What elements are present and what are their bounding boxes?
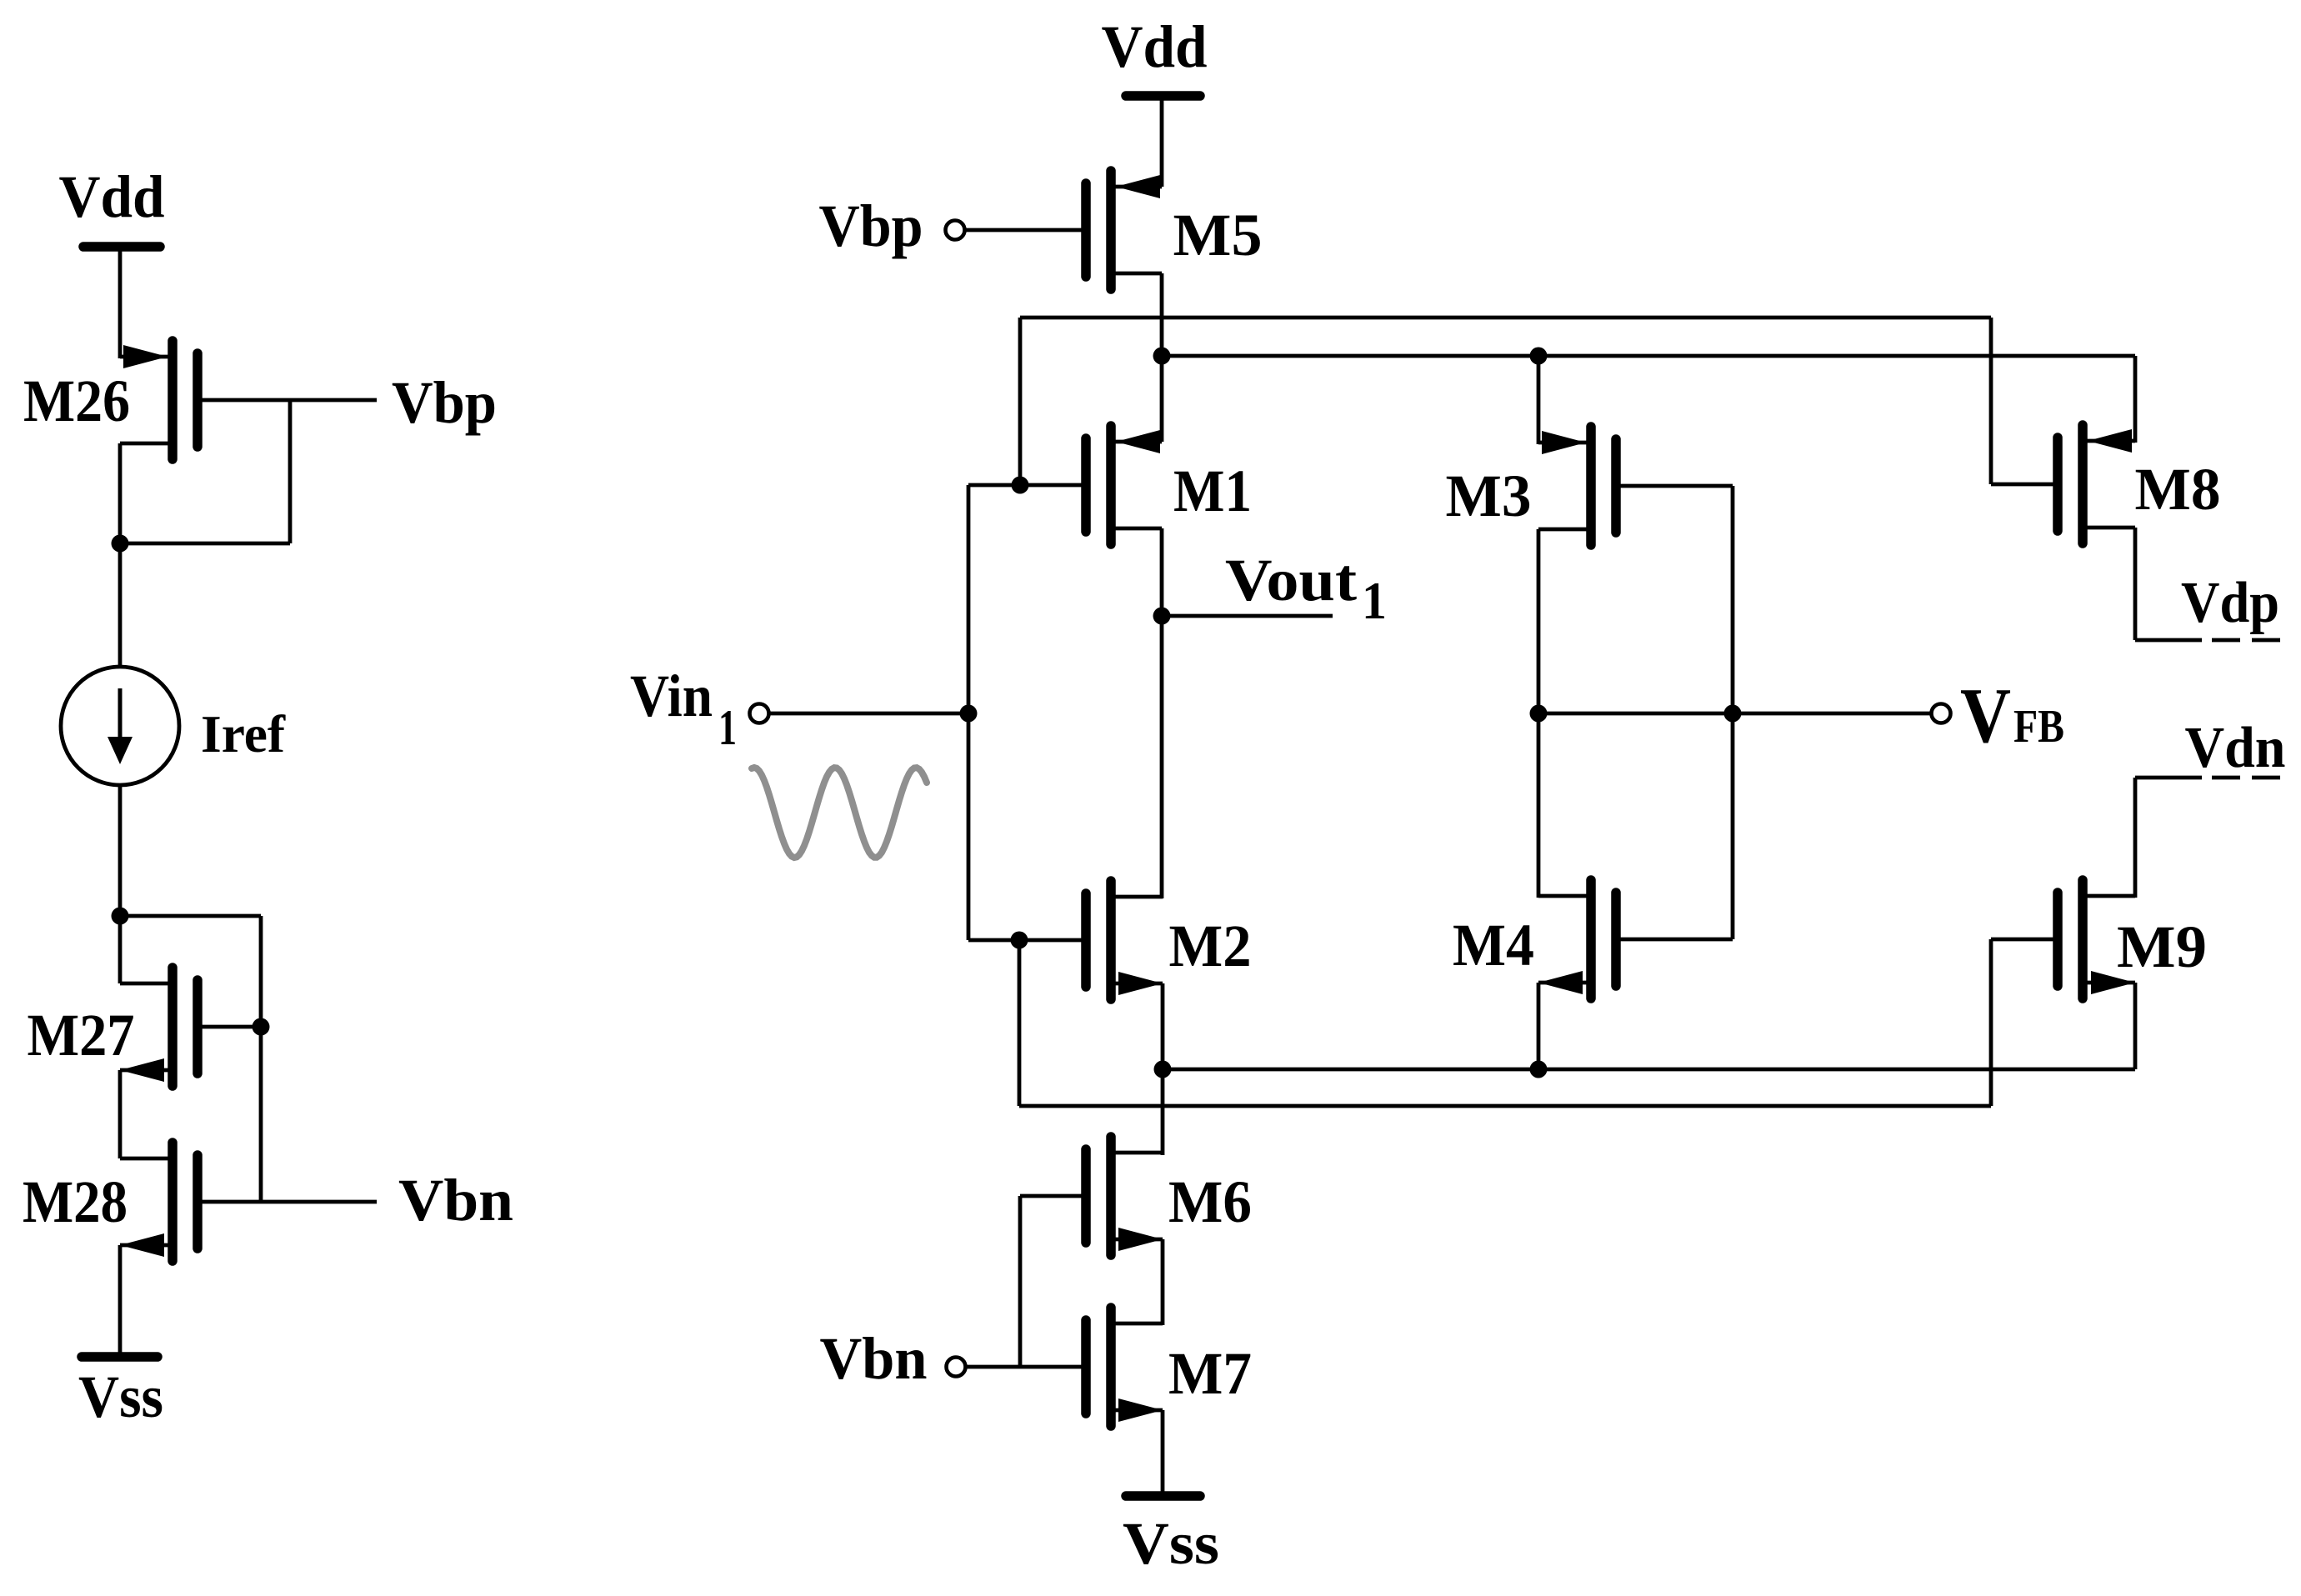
transistor M28 (NMOS) [120, 1143, 377, 1261]
label M7 [1168, 1340, 1252, 1407]
wire rail M2/M9 gate bus [1019, 1104, 1991, 1108]
terminal Vin1 [750, 704, 769, 723]
svg-text:M8: M8 [2135, 456, 2221, 523]
net label Vbn (left) [398, 1167, 513, 1233]
svg-text:M4: M4 [1453, 912, 1534, 978]
transistor M27 (NMOS) [120, 968, 261, 1086]
ground symbol Vss (left) [78, 1357, 163, 1430]
wire input column [967, 485, 971, 940]
wire Vdn to M9 drain [2133, 778, 2138, 898]
svg-text:Vbp: Vbp [819, 193, 923, 259]
wire M1 drain to M2 drain [1160, 528, 1164, 898]
wire Iref to M27 drain [118, 785, 123, 983]
svg-text:Vdd: Vdd [59, 163, 165, 230]
terminal Vdn [2135, 776, 2280, 780]
wire M26 gate feedback [120, 400, 290, 543]
wire M6 gate branch [1018, 1196, 1023, 1367]
svg-text:M2: M2 [1169, 913, 1252, 979]
node M26 drain-gate junction [112, 535, 129, 553]
svg-text:Vdp: Vdp [2181, 571, 2279, 635]
svg-text:M26: M26 [23, 368, 130, 434]
node M1 gate junction [1012, 477, 1029, 494]
svg-text:Vss: Vss [1123, 1510, 1219, 1577]
transistor M6 (NMOS) [1020, 1137, 1163, 1255]
node VFB on gate column [1724, 705, 1742, 723]
net label VFB [1960, 673, 2064, 759]
node VFB on drain column [1530, 705, 1548, 723]
label M6 [1168, 1168, 1252, 1235]
transistor M26 (PMOS) [120, 341, 377, 459]
wire Vdd to M5 source [1160, 96, 1164, 187]
svg-text:1: 1 [718, 700, 737, 755]
net label Vdp [2181, 571, 2279, 635]
terminal Vbn (M7 gate) [947, 1358, 966, 1377]
svg-text:M3: M3 [1446, 463, 1532, 529]
wire M2 source to M6 drain [1161, 983, 1165, 1155]
label M2 [1169, 913, 1252, 979]
transistor M2 (NMOS) [968, 881, 1163, 999]
node bias junction [112, 908, 129, 925]
net label Vdn [2185, 716, 2286, 780]
wire rail M5 drain to M3/M8 source bus [1162, 354, 2135, 358]
transistor M7 (NMOS) [966, 1308, 1163, 1426]
wire M28 source to Vss [118, 1245, 123, 1357]
sine wave source symbol [752, 768, 927, 858]
svg-text:M28: M28 [23, 1168, 128, 1235]
wire Vout1 lead [1162, 614, 1333, 618]
net label Vbn (right) [820, 1325, 928, 1392]
transistor M8 (PMOS) [1991, 425, 2135, 543]
wire rail1 down to M8 gate [1989, 318, 1993, 484]
net label Vin1 [630, 663, 737, 755]
wire M9 source down to rail [2133, 983, 2138, 1069]
node M27 gate junction [253, 1018, 270, 1036]
svg-text:Vbp: Vbp [392, 369, 497, 436]
node M3 source on bus [1530, 348, 1548, 365]
svg-text:Vss: Vss [78, 1363, 163, 1430]
wire M2 gate branch down [1018, 940, 1022, 1106]
wire M26 drain to Iref [118, 443, 123, 667]
wire M5 drain down [1160, 273, 1164, 442]
transistor M1 (PMOS) [968, 426, 1162, 544]
wire VFB lead [1538, 712, 1932, 716]
svg-text:M5: M5 [1173, 202, 1263, 268]
current source Iref [61, 667, 179, 785]
svg-text:Iref: Iref [201, 704, 286, 763]
svg-text:Vdn: Vdn [2185, 716, 2286, 780]
wire Vdd to M26 source [118, 247, 123, 358]
net label Vbp (left) [392, 369, 497, 436]
svg-text:M6: M6 [1168, 1168, 1252, 1235]
svg-text:Vbn: Vbn [820, 1325, 928, 1392]
wire M27 source to M28 drain [118, 1070, 123, 1158]
svg-text:M1: M1 [1173, 458, 1252, 524]
transistor M3 (PMOS) [1538, 427, 1733, 545]
svg-text:M7: M7 [1168, 1340, 1252, 1407]
wire rail source bus M2/M4/M9 [1163, 1068, 2135, 1072]
label M28 [23, 1168, 128, 1235]
node M2 gate junction [1011, 932, 1028, 949]
terminal Vbp (M5 gate) [946, 221, 965, 240]
node Vout1 junction [1153, 608, 1171, 625]
svg-text:Vin: Vin [630, 663, 713, 729]
svg-text:1: 1 [1362, 571, 1387, 630]
wire rail up to M9 gate [1989, 939, 1993, 1106]
label M8 [2135, 456, 2221, 523]
transistor M9 (NMOS) [1991, 880, 2135, 998]
node Vin junction [960, 705, 978, 723]
svg-text:V: V [1960, 673, 2011, 759]
wire M4 source to rail [1537, 983, 1541, 1069]
wire M6 source to M7 drain [1161, 1239, 1165, 1325]
label M3 [1446, 463, 1532, 529]
node M4 source on rail [1530, 1061, 1548, 1078]
svg-text:M27: M27 [28, 1002, 135, 1068]
wire bias node to gates of M27 M28 [120, 916, 261, 1202]
label M9 [2117, 913, 2207, 980]
label M27 [28, 1002, 135, 1068]
wire rail1 down to M1 gate [1018, 318, 1023, 485]
svg-text:Vbn: Vbn [398, 1167, 513, 1233]
terminal Vdp [2135, 638, 2280, 643]
wire rail M1/M8 gate bus [1020, 316, 1991, 320]
wire M3 gate to M4 gate [1731, 486, 1735, 939]
wire bus to M3 source [1537, 356, 1541, 444]
net label Vout1 [1225, 547, 1387, 630]
wire M7 source to Vss [1161, 1410, 1165, 1496]
power symbol Vdd (left) [59, 163, 165, 247]
label M4 [1453, 912, 1534, 978]
node M2 source on rail [1154, 1061, 1172, 1078]
svg-text:Vdd: Vdd [1102, 13, 1208, 80]
node M5 drain on bus [1153, 348, 1171, 365]
transistor M4 (NMOS) [1538, 880, 1733, 998]
wire M3 drain to M4 drain [1537, 529, 1541, 898]
label M1 [1173, 458, 1252, 524]
svg-text:Vout: Vout [1225, 547, 1357, 613]
label M26 [23, 368, 130, 434]
power symbol Vdd (top) [1102, 13, 1208, 96]
ground symbol Vss (bottom) [1123, 1496, 1219, 1577]
label Iref [201, 704, 286, 763]
svg-text:FB: FB [2013, 701, 2064, 753]
net label Vbp (right) [819, 193, 923, 259]
terminal VFB [1932, 704, 1951, 723]
svg-text:M9: M9 [2117, 913, 2207, 980]
wire Vin lead [769, 712, 968, 716]
wire bus down to M8 source [2133, 356, 2138, 443]
wire M8 drain to Vdp [2133, 528, 2138, 640]
label M5 [1173, 202, 1263, 268]
transistor M5 (PMOS) [965, 171, 1162, 289]
